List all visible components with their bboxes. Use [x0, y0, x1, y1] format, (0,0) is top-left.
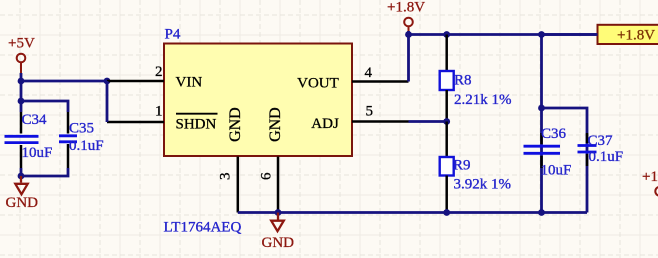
wire C35 branch top	[21, 101, 68, 112]
svg-text:GND: GND	[262, 235, 295, 251]
svg-text:ADJ: ADJ	[311, 116, 339, 132]
node C36 top	[538, 31, 545, 38]
power port +1.8V top	[387, 0, 425, 35]
svg-text:+1.8V: +1.8V	[387, 0, 425, 16]
svg-text:4: 4	[365, 65, 373, 81]
power port +5V	[8, 36, 35, 74]
wire C37 branch	[542, 108, 588, 213]
node R9 bottom	[443, 209, 450, 216]
node C37 branch	[538, 105, 545, 112]
wire C36 drop	[540, 35, 543, 213]
ground GND bottom	[262, 213, 295, 252]
pin 4 VOUT	[297, 65, 408, 91]
resistor R8	[440, 35, 512, 122]
svg-text:P4: P4	[165, 27, 181, 43]
node ground pin6	[275, 209, 282, 216]
svg-text:0.1uF: 0.1uF	[589, 149, 624, 165]
svg-text:3.92k 1%: 3.92k 1%	[454, 177, 512, 193]
node +5V rail right	[104, 78, 111, 85]
node ADJ junction	[443, 118, 450, 125]
svg-text:10uF: 10uF	[541, 163, 572, 179]
svg-text:C36: C36	[541, 126, 567, 142]
svg-text:+1.8V: +1.8V	[642, 169, 658, 185]
regulator IC P4 LT1764AEQ body	[164, 27, 352, 157]
svg-text:R8: R8	[454, 73, 472, 89]
svg-text:GND: GND	[6, 195, 39, 211]
pin 2 VIN	[107, 64, 202, 90]
svg-text:C35: C35	[69, 121, 94, 137]
capacitor C34	[5, 112, 53, 168]
node C36 bottom	[538, 209, 545, 216]
svg-text:+5V: +5V	[8, 36, 35, 52]
svg-text:GND: GND	[267, 107, 284, 142]
wire SHDN drop	[106, 81, 109, 122]
svg-text:5: 5	[366, 104, 374, 120]
svg-text:R9: R9	[453, 158, 471, 174]
svg-text:3: 3	[218, 173, 234, 181]
svg-text:LT1764AEQ: LT1764AEQ	[164, 220, 242, 236]
wire +5V rail	[21, 80, 107, 83]
ground GND left	[6, 176, 39, 211]
node +5V rail left	[18, 78, 25, 85]
power port +1.8V clipped right	[642, 169, 658, 196]
port +1.8V right	[598, 25, 658, 44]
svg-text:C37: C37	[588, 133, 614, 149]
svg-text:1: 1	[155, 104, 163, 120]
capacitor C37	[578, 133, 624, 166]
svg-text:GND: GND	[227, 107, 244, 142]
svg-text:10uF: 10uF	[22, 145, 53, 161]
svg-text:VIN: VIN	[176, 74, 203, 90]
svg-text:VOUT: VOUT	[297, 75, 339, 91]
wire +5V port to rail	[20, 73, 23, 81]
pin 5 ADJ	[311, 104, 408, 133]
pin 3 GND	[218, 107, 244, 212]
resistor R9	[440, 122, 511, 213]
node left ground rail	[18, 173, 25, 180]
wire ADJ	[409, 120, 447, 123]
svg-text:6: 6	[258, 172, 274, 180]
wire port stub	[542, 33, 598, 36]
svg-text:2: 2	[155, 64, 163, 80]
capacitor C36	[524, 126, 572, 179]
pin 1 SHDN	[107, 104, 218, 133]
svg-text:0.1uF: 0.1uF	[69, 138, 104, 154]
svg-text:2.21k 1%: 2.21k 1%	[454, 92, 512, 108]
svg-text:C34: C34	[22, 112, 48, 128]
wire VOUT up	[407, 35, 410, 82]
pin 6 GND	[258, 107, 284, 212]
wire C35 bottom return	[21, 168, 68, 176]
wire VOUT rail	[409, 33, 598, 36]
svg-text:SHDN: SHDN	[176, 117, 217, 133]
node C35 branch	[18, 98, 25, 105]
wire ground rail bottom	[238, 211, 587, 214]
node R8 top	[443, 31, 450, 38]
capacitor C35	[59, 112, 104, 168]
node VOUT port	[405, 31, 412, 38]
wire C34 bottom	[20, 168, 23, 176]
wire C34 drop	[20, 81, 23, 112]
svg-text:+1.8V: +1.8V	[617, 28, 655, 44]
